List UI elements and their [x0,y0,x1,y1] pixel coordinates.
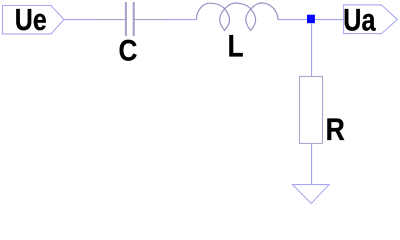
svg-text:Ue: Ue [15,2,47,37]
wire node down to R [311,23,313,76]
svg-text:R: R [326,111,345,147]
port Ue [3,6,65,34]
svg-text:L: L [228,28,244,64]
inductor L [197,3,278,30]
svg-text:C: C [119,35,138,68]
resistor R [300,77,323,144]
wire C to L [165,19,197,21]
wire Ue to C [64,19,97,21]
port Ua [344,5,398,34]
wire L to node [278,19,307,21]
capacitor C [97,2,166,36]
ground [293,185,330,204]
wire R to ground [311,143,313,184]
wire node to Ua [315,19,344,21]
svg-text:Ua: Ua [343,2,375,38]
node junction [307,15,315,24]
